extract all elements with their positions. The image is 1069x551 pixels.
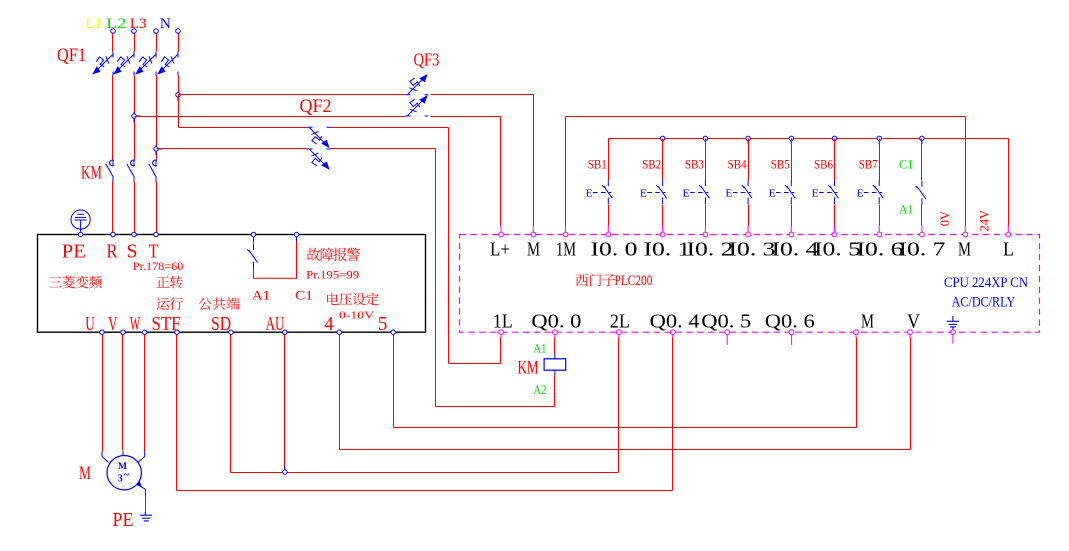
svg-text:I0. 3: I0. 3 — [729, 238, 776, 260]
junction SB bus KM aux — [920, 136, 924, 140]
breaker QF3 pole 1 — [405, 75, 429, 95]
VFD terminal AU — [283, 330, 287, 334]
terminal L1 — [111, 29, 116, 34]
VFD fault relay terminal 2 — [294, 232, 298, 236]
wire SB3 lower — [705, 205, 707, 226]
PLC terminal V bottom — [908, 330, 913, 335]
svg-text:SB1: SB1 — [588, 157, 607, 171]
PLC terminal I0. 7 top — [921, 225, 923, 232]
wire 1M elbow — [565, 117, 567, 226]
VFD text 三菱变频 — [49, 276, 62, 287]
VFD text 公共端 — [199, 297, 212, 309]
PLC terminal 1L bottom — [499, 330, 504, 335]
contactor KM pole 1 — [106, 159, 114, 181]
svg-text:V: V — [108, 313, 118, 335]
PLC terminal Q0. 0 bottom — [553, 330, 558, 335]
breaker QF2 pole 2 — [307, 149, 331, 169]
svg-text:A1: A1 — [899, 202, 914, 216]
svg-text:N: N — [160, 16, 171, 32]
wire KM aux upper — [921, 139, 923, 181]
svg-text:E: E — [640, 189, 647, 200]
PLC terminal M bottom — [854, 330, 859, 335]
svg-text:QF3: QF3 — [414, 50, 440, 70]
svg-text:1M: 1M — [556, 238, 576, 260]
motor M 3~ — [107, 456, 141, 490]
VFD text 故障报警 — [307, 248, 321, 261]
wire M right drop — [965, 117, 967, 226]
VFD terminal W — [143, 330, 147, 334]
svg-text:E: E — [812, 189, 819, 200]
PLC terminal I0. 2 top — [704, 225, 706, 232]
PLC terminal M top — [532, 225, 534, 232]
svg-text:M: M — [958, 238, 971, 260]
contactor KM pole 2 — [127, 159, 135, 181]
svg-text:SB7: SB7 — [859, 157, 878, 171]
VFD terminal S — [132, 232, 136, 236]
wire SB5 lower — [791, 205, 793, 226]
wire L+ drop to PLC — [500, 117, 502, 226]
svg-text:I0. 4: I0. 4 — [772, 238, 819, 260]
breaker QF1 pole 3 — [136, 52, 156, 76]
svg-text:STF: STF — [152, 313, 181, 335]
svg-text:0V: 0V — [938, 211, 952, 226]
svg-text:Q0. 0: Q0. 0 — [531, 311, 581, 333]
contactor KM pole 3 — [149, 159, 157, 181]
svg-text:L1: L1 — [85, 16, 102, 32]
svg-text:C1: C1 — [295, 289, 313, 303]
svg-text:I0. 5: I0. 5 — [814, 238, 861, 260]
breaker QF1 pole 1 — [93, 52, 113, 76]
VFD terminal SD — [229, 330, 233, 334]
svg-text:PLC200: PLC200 — [615, 273, 653, 289]
VFD terminal PE — [78, 232, 82, 236]
PLC terminal L top — [1007, 225, 1009, 232]
PLC terminal I0. 4 top — [790, 225, 792, 232]
breaker QF2 pole 1 — [307, 127, 331, 147]
svg-text:2L: 2L — [610, 311, 630, 333]
svg-text:SD: SD — [211, 313, 231, 335]
svg-text:L: L — [1003, 238, 1014, 260]
wire KM coil A2 — [554, 376, 556, 407]
VFD terminal 5 — [391, 330, 395, 334]
svg-text:A1: A1 — [533, 342, 546, 356]
svg-text:5: 5 — [378, 313, 388, 335]
wire L3 to QF2 lower — [157, 148, 307, 150]
wire V to motor — [122, 335, 124, 451]
junction SB bus SB2 — [660, 136, 664, 140]
wire N to QF2 upper — [179, 127, 307, 129]
junction SB bus SB6 — [832, 136, 836, 140]
svg-text:I0. 0: I0. 0 — [591, 238, 638, 260]
PLC terminal I0. 6 top — [878, 225, 880, 232]
svg-text:V: V — [907, 311, 920, 333]
PLC ground terminal — [951, 330, 956, 335]
wire SB5 upper — [791, 139, 793, 181]
PLC terminal I0. 1 top — [662, 225, 664, 232]
wire SB bus — [609, 138, 1009, 140]
wire SB7 upper — [879, 139, 881, 181]
svg-text:4: 4 — [324, 313, 334, 335]
VFD terminal STF — [175, 330, 179, 334]
VFD terminal R — [111, 232, 115, 236]
svg-text:E: E — [586, 189, 593, 200]
svg-text:M: M — [527, 238, 540, 260]
wire AU branch — [284, 335, 286, 473]
junction SB bus SB7 — [877, 136, 881, 140]
svg-text:M: M — [79, 463, 91, 484]
wire L2 to L+ horizontal — [135, 116, 405, 118]
coil KM — [554, 354, 556, 359]
svg-text:L+: L+ — [490, 238, 510, 260]
svg-text:E: E — [769, 189, 776, 200]
VFD text 正转 — [157, 276, 170, 288]
wire L2 QF1-KM — [134, 76, 136, 160]
wire L2 drop — [134, 34, 136, 52]
VFD terminal T — [154, 232, 158, 236]
breaker QF1 pole 2 — [114, 52, 134, 76]
terminal L3 — [154, 29, 159, 34]
svg-text:I0. 2: I0. 2 — [687, 238, 734, 260]
VFD text 运行 — [157, 297, 170, 309]
svg-text:SB3: SB3 — [685, 157, 704, 171]
junction L3 — [154, 147, 158, 151]
pushbutton SB6 — [828, 180, 838, 204]
junction SB bus SB5 — [789, 136, 793, 140]
VFD fault relay terminal — [251, 232, 255, 236]
wire T KM-VFD — [156, 182, 158, 233]
breaker QF1 pole 4 — [158, 52, 178, 76]
VFD fault relay stub — [296, 237, 298, 241]
VFD box 三菱变频 — [38, 235, 426, 333]
ground PLC — [947, 316, 959, 329]
wire SB2 upper — [662, 139, 664, 181]
junction N — [176, 93, 180, 97]
VFD text 电压设定 — [327, 293, 339, 305]
pushbutton SB1 — [602, 180, 612, 204]
svg-text:SB2: SB2 — [642, 157, 661, 171]
pushbutton SB3 — [699, 180, 709, 204]
svg-text:SB4: SB4 — [728, 157, 748, 171]
PLC box 西门子PLC200 — [460, 235, 1040, 333]
VFD terminal V — [121, 330, 125, 334]
svg-text:R: R — [107, 241, 119, 263]
svg-text:M: M — [861, 311, 874, 333]
svg-text:0-10V: 0-10V — [339, 310, 374, 322]
wire 4 to PLC V — [339, 335, 341, 450]
wire L1 drop — [112, 34, 114, 52]
svg-text:Pr.195=99: Pr.195=99 — [306, 269, 359, 281]
svg-text:T: T — [149, 241, 159, 263]
wire M drop to PLC — [533, 95, 535, 226]
wire S KM-VFD — [134, 182, 136, 233]
svg-text:I0. 6: I0. 6 — [857, 238, 904, 260]
PLC text 西门子PLC200 — [576, 274, 589, 286]
svg-text:3: 3 — [118, 474, 123, 485]
wire L1 QF1-KM — [112, 76, 114, 160]
svg-text:SB5: SB5 — [771, 157, 790, 171]
ground PE circle symbol — [71, 210, 90, 229]
svg-text:E: E — [725, 189, 732, 200]
wire W to motor — [144, 335, 146, 452]
wire SB1 upper — [608, 139, 610, 181]
svg-text:PE: PE — [113, 509, 134, 531]
svg-text:L2: L2 — [106, 16, 126, 32]
junction SB bus SB3 — [703, 136, 707, 140]
svg-text:SB6: SB6 — [814, 157, 833, 171]
motor PE lead — [137, 484, 145, 489]
wire SB2 lower — [662, 205, 664, 226]
svg-text:U: U — [85, 313, 95, 335]
wire 1L to QF2 — [500, 338, 502, 364]
VFD fault relay wire — [254, 241, 297, 279]
junction L2 — [132, 114, 136, 118]
ground motor PE — [140, 512, 152, 521]
junction SB bus SB4 — [746, 136, 750, 140]
svg-text:PE: PE — [62, 241, 86, 263]
VFD fault relay contact — [253, 237, 255, 242]
svg-text:QF1: QF1 — [57, 45, 86, 66]
wire QF2 upper drop to 1L — [448, 128, 450, 364]
svg-text:A2: A2 — [533, 383, 546, 397]
wire SB6 lower — [834, 205, 836, 226]
wire N to M horizontal — [179, 94, 405, 96]
PLC terminal M top — [964, 225, 966, 232]
wire U to motor — [102, 335, 104, 452]
wire R KM-VFD — [112, 182, 114, 233]
PLC terminal L+ top — [500, 225, 502, 232]
svg-text:CPU 224XP CN: CPU 224XP CN — [944, 275, 1028, 291]
PLC terminal 1M top — [565, 225, 567, 232]
wire KM aux lower — [921, 205, 923, 226]
svg-text:AU: AU — [266, 313, 285, 335]
svg-text:KM: KM — [81, 163, 102, 184]
pushbutton SB4 — [742, 180, 752, 204]
wire SB3 upper — [705, 139, 707, 181]
wire SB6 upper — [834, 139, 836, 181]
wire STF to Q0.4 — [176, 335, 178, 491]
wire L3 QF1-KM — [156, 76, 158, 160]
svg-text:Pr.178=60: Pr.178=60 — [133, 261, 184, 273]
svg-text:W: W — [130, 313, 141, 335]
PLC terminal 2L bottom — [617, 330, 622, 335]
terminal N — [176, 29, 181, 34]
wire Q0.0 to KM coil — [554, 338, 556, 354]
wire SB4 upper — [748, 139, 750, 181]
svg-text:C1: C1 — [899, 158, 914, 172]
svg-text:Q0. 4: Q0. 4 — [650, 311, 700, 333]
VFD terminal 4 — [337, 330, 341, 334]
svg-text:Q0. 6: Q0. 6 — [765, 311, 815, 333]
pushbutton SB2 — [656, 180, 666, 204]
PLC terminal I0. 3 top — [747, 225, 749, 232]
wire SB4 lower — [748, 205, 750, 226]
PLC terminal I0. 0 top — [607, 225, 609, 232]
wire 5 to PLC M — [393, 335, 395, 428]
wire N drop — [178, 34, 180, 52]
svg-text:QF2: QF2 — [300, 96, 332, 117]
svg-text:Q0. 5: Q0. 5 — [701, 311, 751, 333]
svg-text:AC/DC/RLY: AC/DC/RLY — [952, 295, 1016, 311]
wire N QF1-junction — [178, 76, 180, 95]
wire QF2 lower drop to KM coil A2 — [435, 149, 437, 407]
PLC terminal Q0. 6 bottom — [789, 330, 794, 335]
VFD terminal U — [100, 330, 104, 334]
svg-text:E: E — [683, 189, 690, 200]
svg-text:I0. 7: I0. 7 — [899, 238, 946, 260]
PLC terminal Q0. 4 bottom — [670, 330, 675, 335]
junction AU-SD — [283, 470, 287, 474]
svg-text:E: E — [857, 189, 864, 200]
pushbutton SB5 — [785, 180, 795, 204]
svg-text:~: ~ — [124, 470, 130, 481]
PLC terminal Q0. 5 bottom — [725, 330, 730, 335]
breaker QF3 pole 2 — [405, 96, 429, 116]
svg-text:1L: 1L — [493, 311, 513, 333]
svg-text:S: S — [127, 241, 138, 263]
wire SB7 lower — [879, 205, 881, 226]
wire L drop — [1008, 139, 1010, 226]
svg-text:A1: A1 — [252, 289, 270, 303]
wire N branch down — [178, 95, 180, 128]
svg-text:KM: KM — [518, 358, 539, 379]
PLC terminal I0. 5 top — [834, 225, 836, 232]
terminal L2 — [132, 29, 137, 34]
pushbutton SB7 — [873, 180, 883, 204]
contact KM aux (I0.7) — [916, 181, 926, 205]
wire SD to 2L — [230, 335, 232, 473]
wire L3 drop — [156, 34, 158, 52]
svg-text:24V: 24V — [978, 210, 992, 232]
svg-text:I0. 1: I0. 1 — [644, 238, 691, 260]
wire SB1 lower — [608, 205, 610, 226]
